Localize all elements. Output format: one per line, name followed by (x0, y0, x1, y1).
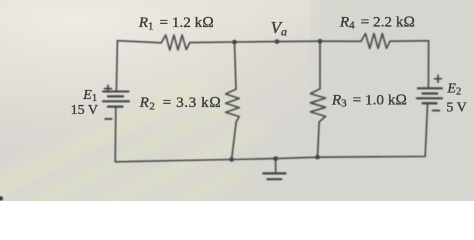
wire: E1 bottom to bottom-left corner, bottom wire to ground node (115, 107, 275, 162)
ground stub wire (275, 159, 277, 173)
E2 minus sign (433, 110, 439, 112)
junction dot: R2 top (232, 40, 237, 45)
resistor R1 (zigzag) (161, 35, 190, 50)
svg-text:15 V: 15 V (71, 103, 98, 118)
wire: R3 bottom segment (318, 122, 320, 157)
E2 plus sign (435, 78, 442, 80)
wire: bottom (ground node to bottom-right corner), right vertical up to E2 (276, 104, 428, 159)
wire: R3 branch top segment (319, 41, 321, 89)
E1 minus sign (105, 118, 111, 120)
dark speck bottom-left corner (0, 196, 3, 200)
battery E1 plates (103, 90, 129, 92)
resistor R4 (zigzag) (361, 34, 390, 49)
wire: R2 branch top segment (235, 42, 237, 89)
wire: top-left horizontal (left corner to R1) (117, 41, 161, 43)
junction dot: R3 top (318, 39, 323, 44)
wire: R1 to node a (190, 41, 320, 42)
wire: E2 top to top-right corner (427, 41, 429, 88)
wire: node (R3 junction) to R4 (320, 40, 361, 42)
wire: left vertical (corner down to battery E1) (116, 41, 117, 92)
wire: R4 to top-right corner (390, 40, 429, 42)
resistor R3 (vertical zigzag) (310, 89, 325, 122)
svg-text:5 V: 5 V (446, 101, 466, 116)
junction node a dot (275, 39, 280, 44)
E1 plus sign (105, 88, 112, 90)
wire: R2 bottom segment (232, 122, 237, 160)
resistor R2 (vertical zigzag) (226, 89, 240, 122)
ground bars (263, 172, 285, 174)
battery E2 plates (418, 87, 442, 89)
junction dot: R3 bottom (315, 155, 320, 160)
junction dot: R2 bottom (229, 157, 234, 162)
junction dot: ground node (273, 156, 278, 161)
